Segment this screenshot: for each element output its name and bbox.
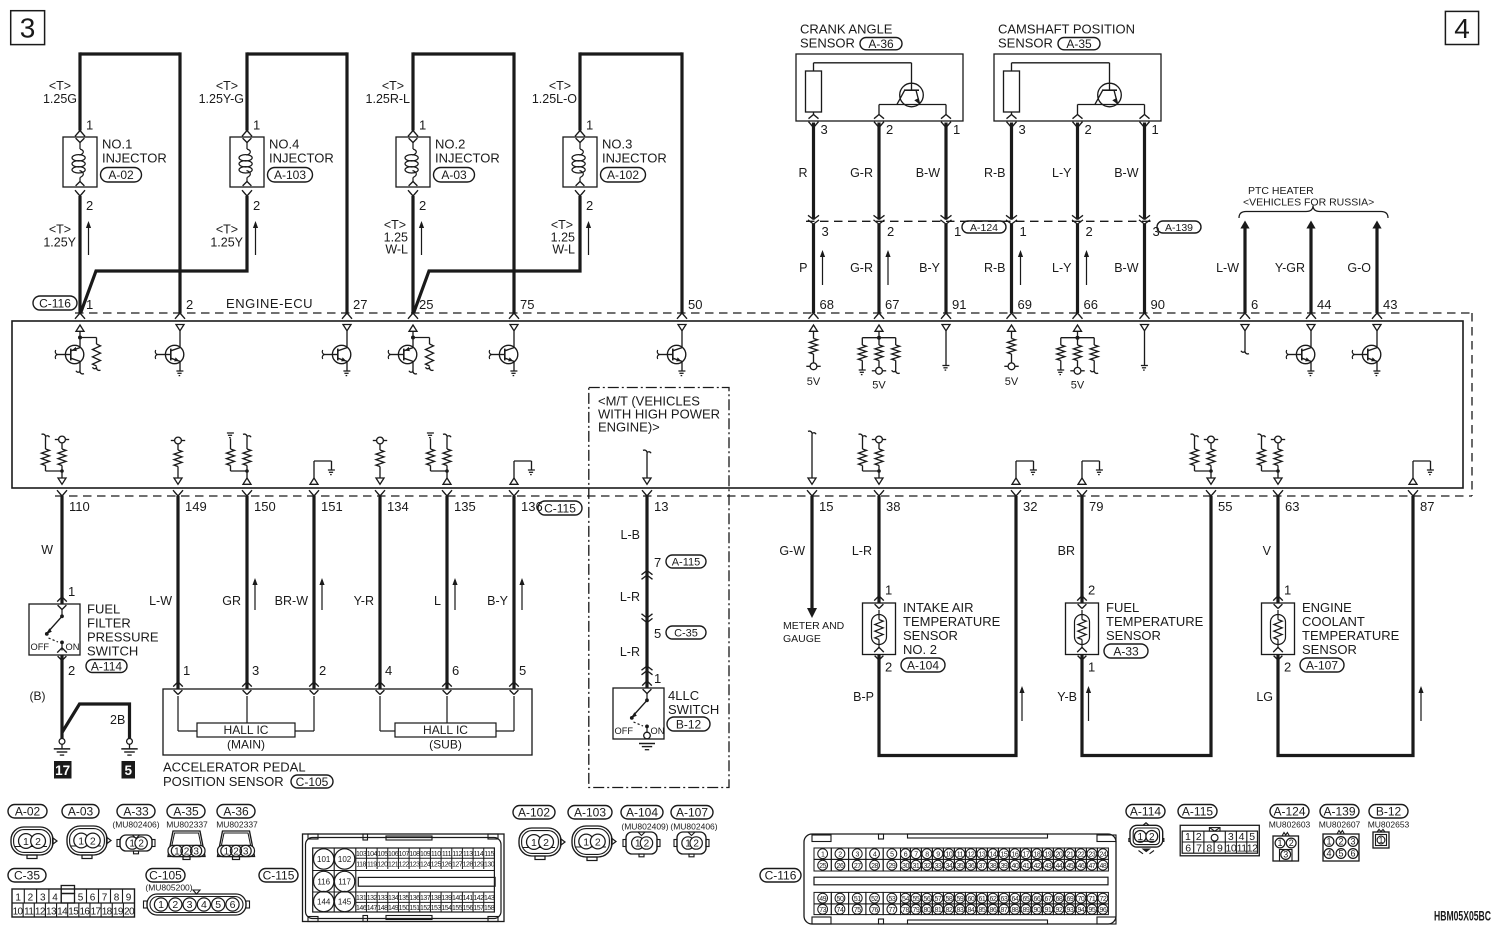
svg-text:25: 25 (419, 297, 433, 312)
svg-text:2: 2 (90, 835, 96, 847)
svg-text:<T>: <T> (549, 79, 571, 93)
svg-text:75: 75 (520, 297, 534, 312)
svg-text:15: 15 (1001, 851, 1008, 858)
svg-text:TEMPERATURE: TEMPERATURE (1106, 614, 1204, 629)
svg-text:109: 109 (420, 851, 431, 858)
svg-text:ACCELERATOR PEDAL: ACCELERATOR PEDAL (163, 760, 306, 775)
svg-text:15: 15 (68, 906, 79, 917)
svg-text:9: 9 (936, 851, 940, 858)
svg-text:<T>: <T> (216, 223, 238, 237)
svg-text:1: 1 (685, 839, 691, 850)
svg-text:50: 50 (837, 896, 844, 903)
svg-text:10: 10 (13, 906, 24, 917)
svg-text:5: 5 (1249, 831, 1255, 843)
svg-text:1: 1 (583, 836, 589, 848)
svg-text:2: 2 (1338, 837, 1343, 847)
svg-text:87: 87 (1420, 499, 1434, 514)
svg-text:80: 80 (924, 907, 931, 914)
svg-text:69: 69 (1067, 896, 1074, 903)
svg-text:2: 2 (886, 122, 893, 137)
svg-text:4: 4 (385, 663, 392, 678)
svg-text:59: 59 (957, 896, 964, 903)
svg-text:104: 104 (367, 851, 378, 858)
svg-text:L-W: L-W (149, 594, 172, 608)
svg-text:117: 117 (338, 878, 351, 887)
svg-text:PRESSURE: PRESSURE (87, 630, 159, 645)
svg-text:51: 51 (854, 896, 861, 903)
svg-text:SENSOR: SENSOR (903, 628, 958, 643)
svg-text:44: 44 (1056, 863, 1063, 870)
svg-text:11: 11 (1237, 843, 1248, 855)
svg-text:1: 1 (1020, 224, 1027, 239)
svg-text:44: 44 (1317, 297, 1331, 312)
svg-text:62: 62 (990, 896, 997, 903)
svg-text:2: 2 (543, 837, 549, 849)
svg-text:1: 1 (1277, 838, 1282, 848)
svg-text:<T>: <T> (49, 79, 71, 93)
svg-text:7: 7 (654, 555, 661, 570)
svg-text:A-36: A-36 (223, 805, 249, 819)
svg-text:2: 2 (253, 198, 260, 213)
svg-text:13: 13 (979, 851, 986, 858)
svg-text:INTAKE AIR: INTAKE AIR (903, 600, 974, 615)
svg-text:18: 18 (102, 906, 113, 917)
svg-text:95: 95 (1089, 907, 1096, 914)
svg-text:34: 34 (946, 863, 953, 870)
svg-text:(MU802406): (MU802406) (112, 820, 159, 830)
svg-text:1: 1 (1185, 831, 1191, 843)
svg-text:5: 5 (1338, 849, 1343, 859)
svg-text:154: 154 (441, 905, 452, 912)
svg-text:1: 1 (253, 118, 260, 133)
svg-text:NO.3: NO.3 (602, 137, 632, 152)
svg-text:5V: 5V (1071, 380, 1085, 392)
svg-text:125: 125 (431, 861, 442, 868)
svg-text:2: 2 (1086, 224, 1093, 239)
svg-text:78: 78 (902, 907, 909, 914)
svg-text:49: 49 (819, 896, 826, 903)
svg-text:138: 138 (431, 895, 442, 902)
svg-text:MU802607: MU802607 (1319, 820, 1361, 830)
svg-text:101: 101 (317, 855, 331, 864)
svg-text:SENSOR: SENSOR (800, 36, 855, 51)
svg-text:C-116: C-116 (765, 869, 797, 883)
svg-text:83: 83 (957, 907, 964, 914)
svg-text:73: 73 (819, 907, 826, 914)
svg-text:133: 133 (377, 895, 388, 902)
svg-text:113: 113 (463, 851, 473, 858)
svg-text:63: 63 (1285, 499, 1299, 514)
svg-text:B-Y: B-Y (919, 261, 941, 275)
svg-text:1: 1 (885, 583, 892, 598)
svg-text:A-114: A-114 (1130, 805, 1161, 819)
svg-text:38: 38 (886, 499, 900, 514)
svg-text:1: 1 (183, 663, 190, 678)
svg-text:4: 4 (1239, 831, 1245, 843)
svg-text:BR: BR (1058, 544, 1075, 558)
svg-text:19: 19 (113, 906, 124, 917)
svg-text:NO.2: NO.2 (435, 137, 465, 152)
svg-text:74: 74 (837, 907, 844, 914)
svg-text:89: 89 (1023, 907, 1030, 914)
svg-text:27: 27 (353, 297, 367, 312)
svg-text:6: 6 (904, 851, 908, 858)
svg-text:142: 142 (473, 895, 484, 902)
svg-text:3: 3 (20, 13, 36, 44)
svg-text:53: 53 (888, 896, 895, 903)
svg-text:123: 123 (409, 861, 420, 868)
svg-text:P: P (799, 261, 807, 275)
svg-text:CAMSHAFT POSITION: CAMSHAFT POSITION (998, 22, 1135, 37)
svg-text:(MAIN): (MAIN) (227, 738, 265, 752)
svg-text:INJECTOR: INJECTOR (102, 151, 167, 166)
svg-text:INJECTOR: INJECTOR (435, 151, 500, 166)
svg-text:90: 90 (1151, 297, 1165, 312)
svg-text:43: 43 (1045, 863, 1052, 870)
svg-text:1: 1 (129, 839, 135, 850)
svg-text:TEMPERATURE: TEMPERATURE (903, 614, 1001, 629)
svg-text:107: 107 (399, 851, 410, 858)
svg-text:2: 2 (1289, 838, 1294, 848)
svg-text:149: 149 (185, 499, 207, 514)
svg-text:8: 8 (925, 851, 929, 858)
svg-text:18: 18 (1034, 851, 1041, 858)
svg-text:(SUB): (SUB) (429, 738, 462, 752)
svg-text:3: 3 (822, 224, 829, 239)
svg-text:27: 27 (854, 863, 861, 870)
svg-text:82: 82 (946, 907, 953, 914)
svg-text:A-114: A-114 (91, 659, 122, 673)
svg-text:A-139: A-139 (1165, 222, 1193, 234)
svg-text:Y-GR: Y-GR (1275, 261, 1305, 275)
svg-text:140: 140 (452, 895, 463, 902)
svg-text:SWITCH: SWITCH (87, 644, 138, 659)
svg-text:BR-W: BR-W (275, 594, 309, 608)
svg-text:91: 91 (952, 297, 966, 312)
svg-text:10: 10 (1226, 843, 1237, 855)
svg-text:MU802337: MU802337 (166, 820, 208, 830)
svg-text:A-35: A-35 (173, 805, 199, 819)
svg-text:151: 151 (321, 499, 343, 514)
svg-text:94: 94 (1078, 907, 1085, 914)
svg-text:B-P: B-P (853, 690, 874, 704)
svg-text:2: 2 (35, 836, 41, 848)
svg-text:G-R: G-R (850, 261, 873, 275)
svg-text:HALL IC: HALL IC (423, 723, 468, 737)
svg-text:4: 4 (201, 899, 207, 911)
svg-text:A-124: A-124 (970, 222, 998, 234)
svg-text:C-115: C-115 (263, 869, 295, 883)
svg-text:GAUGE: GAUGE (783, 633, 821, 645)
svg-text:GR: GR (222, 594, 241, 608)
svg-text:1.25Y: 1.25Y (43, 236, 76, 250)
svg-text:33: 33 (935, 863, 942, 870)
svg-text:57: 57 (935, 896, 942, 903)
svg-text:9: 9 (1217, 843, 1223, 855)
svg-text:124: 124 (420, 861, 431, 868)
svg-text:6: 6 (1251, 297, 1258, 312)
svg-text:45: 45 (1067, 863, 1074, 870)
svg-text:12: 12 (1247, 843, 1258, 855)
svg-text:20: 20 (124, 906, 135, 917)
svg-text:V: V (1263, 544, 1272, 558)
svg-text:SENSOR: SENSOR (998, 36, 1053, 51)
svg-text:26: 26 (837, 863, 844, 870)
svg-text:75: 75 (854, 907, 861, 914)
svg-text:1: 1 (68, 584, 75, 599)
svg-text:52: 52 (871, 896, 878, 903)
svg-text:2: 2 (1196, 831, 1202, 843)
svg-text:3: 3 (187, 899, 193, 911)
svg-text:2: 2 (1088, 583, 1095, 598)
svg-text:50: 50 (688, 297, 702, 312)
svg-text:2: 2 (838, 851, 842, 858)
svg-text:L-W: L-W (1216, 261, 1239, 275)
svg-text:91: 91 (1045, 907, 1052, 914)
svg-text:79: 79 (913, 907, 920, 914)
svg-text:25: 25 (819, 863, 826, 870)
svg-text:METER AND: METER AND (783, 620, 845, 632)
svg-text:<VEHICLES FOR RUSSIA>: <VEHICLES FOR RUSSIA> (1243, 197, 1374, 209)
svg-text:C-116: C-116 (39, 296, 71, 310)
svg-text:4: 4 (52, 893, 58, 904)
svg-text:146: 146 (356, 905, 367, 912)
svg-text:84: 84 (968, 907, 975, 914)
svg-text:A-107: A-107 (676, 806, 708, 820)
svg-text:W-L: W-L (552, 243, 575, 257)
svg-text:2: 2 (419, 198, 426, 213)
svg-text:1.25Y-G: 1.25Y-G (199, 92, 244, 106)
svg-text:136: 136 (409, 895, 420, 902)
svg-text:5: 5 (890, 851, 894, 858)
svg-text:150: 150 (399, 905, 410, 912)
svg-text:FUEL: FUEL (1106, 600, 1139, 615)
svg-text:INJECTOR: INJECTOR (602, 151, 667, 166)
svg-text:1: 1 (654, 671, 661, 686)
svg-text:1: 1 (953, 122, 960, 137)
svg-text:42: 42 (1034, 863, 1041, 870)
svg-text:114: 114 (474, 851, 484, 858)
svg-text:5: 5 (78, 893, 84, 904)
svg-text:13: 13 (46, 906, 57, 917)
svg-text:152: 152 (420, 905, 431, 912)
svg-text:2B: 2B (110, 713, 125, 727)
svg-text:8: 8 (1206, 843, 1212, 855)
svg-text:3: 3 (252, 663, 259, 678)
svg-text:A-115: A-115 (1182, 805, 1213, 819)
svg-text:HALL IC: HALL IC (224, 723, 269, 737)
svg-text:A-115: A-115 (672, 556, 701, 568)
svg-text:A-35: A-35 (1066, 37, 1092, 51)
svg-text:119: 119 (367, 861, 377, 868)
svg-text:NO.1: NO.1 (102, 137, 132, 152)
svg-text:G-R: G-R (850, 166, 873, 180)
svg-text:ENGINE)>: ENGINE)> (598, 420, 660, 435)
svg-text:Y-R: Y-R (354, 594, 374, 608)
svg-text:1.25Y: 1.25Y (210, 236, 243, 250)
svg-text:PTC HEATER: PTC HEATER (1248, 185, 1314, 197)
svg-text:3: 3 (40, 893, 46, 904)
svg-text:55: 55 (1218, 499, 1232, 514)
svg-text:1: 1 (586, 118, 593, 133)
svg-text:4LLC: 4LLC (668, 688, 699, 703)
svg-text:103: 103 (356, 851, 367, 858)
svg-text:<T>: <T> (382, 79, 404, 93)
svg-text:87: 87 (1001, 907, 1008, 914)
svg-text:ENGINE-ECU: ENGINE-ECU (226, 296, 313, 311)
svg-text:28: 28 (871, 863, 878, 870)
svg-text:CRANK ANGLE: CRANK ANGLE (800, 22, 893, 37)
svg-text:6: 6 (230, 899, 236, 911)
svg-text:129: 129 (473, 861, 484, 868)
svg-text:C-35: C-35 (14, 869, 40, 883)
svg-text:157: 157 (473, 905, 484, 912)
svg-text:1: 1 (635, 839, 641, 850)
svg-text:POSITION SENSOR: POSITION SENSOR (163, 774, 284, 789)
svg-text:2: 2 (86, 198, 93, 213)
svg-text:122: 122 (399, 861, 410, 868)
svg-text:(MU805200): (MU805200) (145, 883, 192, 893)
svg-text:(MU802406): (MU802406) (670, 822, 717, 832)
svg-text:B-W: B-W (1114, 261, 1139, 275)
svg-text:11: 11 (24, 906, 34, 917)
svg-text:143: 143 (484, 895, 495, 902)
svg-text:9: 9 (126, 893, 132, 904)
svg-text:1: 1 (531, 837, 537, 849)
svg-text:1: 1 (15, 893, 21, 904)
svg-text:118: 118 (356, 861, 366, 868)
svg-text:38: 38 (990, 863, 997, 870)
svg-text:17: 17 (55, 763, 70, 778)
svg-text:3: 3 (1283, 850, 1288, 860)
svg-text:79: 79 (1089, 499, 1103, 514)
svg-text:COOLANT: COOLANT (1302, 614, 1365, 629)
svg-text:39: 39 (1001, 863, 1008, 870)
svg-text:A-139: A-139 (1323, 805, 1355, 819)
svg-text:48: 48 (1100, 863, 1107, 870)
svg-text:2: 2 (68, 663, 75, 678)
svg-text:153: 153 (431, 905, 442, 912)
svg-text:32: 32 (924, 863, 931, 870)
svg-text:A-03: A-03 (68, 805, 94, 819)
svg-text:12: 12 (35, 906, 46, 917)
svg-text:41: 41 (1023, 863, 1030, 870)
svg-text:13: 13 (654, 499, 668, 514)
svg-text:FUEL: FUEL (87, 602, 120, 617)
svg-text:115: 115 (484, 851, 494, 858)
svg-text:111: 111 (442, 851, 452, 858)
svg-text:2: 2 (1085, 122, 1092, 137)
svg-text:L-Y: L-Y (1052, 166, 1072, 180)
svg-text:3: 3 (1228, 831, 1234, 843)
svg-text:30: 30 (902, 863, 909, 870)
svg-text:130: 130 (484, 861, 495, 868)
svg-text:126: 126 (441, 861, 452, 868)
svg-text:(MU802409): (MU802409) (621, 822, 668, 832)
svg-text:156: 156 (463, 905, 474, 912)
svg-text:147: 147 (367, 905, 378, 912)
svg-text:1: 1 (224, 847, 230, 858)
svg-text:1: 1 (1152, 122, 1159, 137)
svg-text:139: 139 (441, 895, 452, 902)
svg-text:A-104: A-104 (907, 658, 939, 672)
svg-text:TEMPERATURE: TEMPERATURE (1302, 628, 1400, 643)
svg-text:10: 10 (946, 851, 953, 858)
svg-text:5: 5 (654, 626, 661, 641)
svg-text:70: 70 (1078, 896, 1085, 903)
svg-text:131: 131 (356, 895, 367, 902)
svg-text:A-33: A-33 (123, 805, 149, 819)
svg-text:L-R: L-R (852, 544, 872, 558)
svg-text:W: W (41, 543, 53, 557)
svg-text:R-B: R-B (984, 166, 1006, 180)
svg-text:16: 16 (79, 906, 90, 917)
svg-text:21: 21 (1067, 851, 1074, 858)
svg-text:1.25G: 1.25G (43, 92, 77, 106)
svg-text:6: 6 (1350, 849, 1355, 859)
svg-text:108: 108 (409, 851, 420, 858)
svg-text:68: 68 (820, 297, 834, 312)
svg-text:29: 29 (888, 863, 895, 870)
svg-text:72: 72 (1100, 896, 1107, 903)
svg-text:149: 149 (388, 905, 399, 912)
svg-text:1: 1 (419, 118, 426, 133)
svg-text:3: 3 (243, 847, 249, 858)
svg-text:144: 144 (317, 898, 331, 907)
svg-text:1: 1 (954, 224, 961, 239)
svg-text:2: 2 (138, 839, 144, 850)
svg-text:<T>: <T> (49, 223, 71, 237)
svg-text:1: 1 (821, 851, 825, 858)
svg-text:B-12: B-12 (1376, 805, 1402, 819)
svg-text:151: 151 (409, 905, 420, 912)
svg-text:L-B: L-B (621, 528, 640, 542)
svg-text:5V: 5V (1005, 376, 1019, 388)
svg-text:2: 2 (586, 198, 593, 213)
svg-text:128: 128 (463, 861, 474, 868)
svg-text:2: 2 (1284, 660, 1291, 675)
svg-text:110: 110 (69, 499, 90, 514)
svg-text:3: 3 (821, 122, 828, 137)
svg-text:1: 1 (86, 297, 93, 312)
svg-text:2: 2 (186, 297, 193, 312)
svg-text:2: 2 (887, 224, 894, 239)
svg-text:C-115: C-115 (544, 501, 576, 515)
svg-text:1.25R-L: 1.25R-L (366, 92, 411, 106)
svg-text:5: 5 (215, 899, 221, 911)
svg-text:127: 127 (452, 861, 463, 868)
svg-text:86: 86 (990, 907, 997, 914)
svg-text:3: 3 (1019, 122, 1026, 137)
svg-text:A-124: A-124 (1273, 805, 1305, 819)
svg-text:35: 35 (957, 863, 964, 870)
svg-text:1: 1 (78, 835, 84, 847)
svg-text:C-105: C-105 (149, 869, 182, 883)
svg-text:32: 32 (1023, 499, 1037, 514)
svg-text:ENGINE: ENGINE (1302, 600, 1352, 615)
svg-text:121: 121 (388, 861, 399, 868)
svg-text:155: 155 (452, 905, 463, 912)
svg-text:56: 56 (924, 896, 931, 903)
svg-text:B-W: B-W (1114, 166, 1139, 180)
svg-text:1: 1 (23, 836, 29, 848)
svg-text:C-35: C-35 (674, 627, 698, 639)
svg-text:14: 14 (990, 851, 997, 858)
svg-text:76: 76 (871, 907, 878, 914)
svg-text:150: 150 (254, 499, 276, 514)
svg-text:L-R: L-R (620, 645, 640, 659)
svg-text:67: 67 (1045, 896, 1052, 903)
